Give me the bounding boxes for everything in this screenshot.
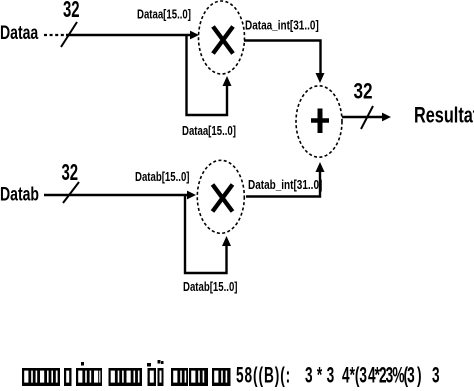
wire feedback Dataa	[187, 36, 228, 115]
svg-text:58((B)(:: 58((B)(:	[236, 362, 291, 387]
svg-text:Dataa_int[31..0]: Dataa_int[31..0]	[245, 20, 319, 33]
svg-text:Dataa[15..0]: Dataa[15..0]	[137, 8, 191, 21]
multiplier U1	[199, 1, 245, 74]
wire U2 output to adder	[246, 171, 320, 197]
bus slash Resultat	[361, 106, 373, 129]
svg-text:4*(3: 4*(3	[342, 362, 367, 387]
svg-text:32: 32	[63, 0, 80, 23]
wire Datab input	[44, 194, 193, 196]
svg-text:Dataa: Dataa	[0, 22, 39, 44]
svg-text:Dataa[15..0]: Dataa[15..0]	[182, 125, 236, 138]
svg-text:Resultat: Resultat	[414, 103, 474, 128]
svg-text:32: 32	[62, 160, 79, 186]
adder U3	[296, 86, 342, 157]
wire feedback Datab	[185, 196, 227, 273]
bus slash Datab	[63, 182, 79, 203]
wire Dataa input	[44, 34, 66, 36]
wire U1 output to adder	[244, 41, 321, 75]
svg-text:Datab[15..0]: Datab[15..0]	[183, 281, 238, 294]
svg-text:3: 3	[432, 362, 440, 387]
bus slash Dataa	[61, 22, 77, 47]
svg-text:Datab[15..0]: Datab[15..0]	[135, 171, 190, 184]
svg-text:3*3: 3*3	[305, 362, 338, 387]
svg-text:): )	[417, 362, 422, 387]
multiplier U2	[197, 160, 244, 233]
svg-text:Datab: Datab	[0, 183, 39, 205]
caption scanned-word blocks (illegible)	[22, 368, 231, 386]
svg-text:4*23%(3: 4*23%(3	[368, 362, 415, 387]
svg-text:Datab_int[31..0]: Datab_int[31..0]	[248, 179, 323, 192]
caption accents	[81, 362, 84, 366]
svg-text:32: 32	[354, 80, 373, 105]
wire Resultat output	[342, 116, 388, 118]
